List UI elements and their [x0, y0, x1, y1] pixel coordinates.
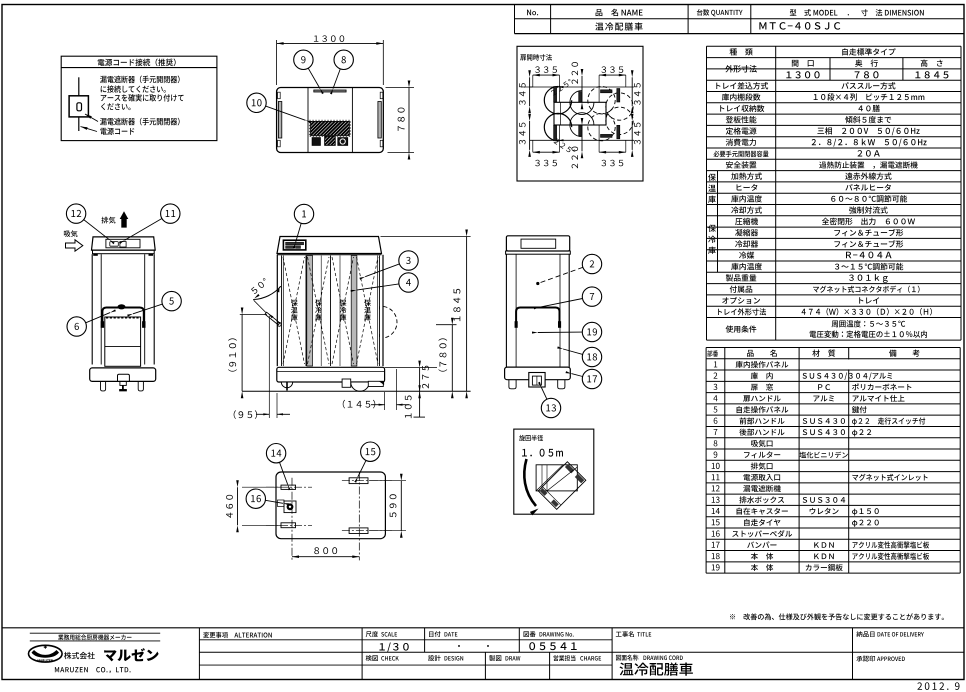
center lines — [266, 486, 312, 488]
top cap front — [277, 237, 382, 254]
corner latch marks — [278, 92, 281, 99]
balloon 15 — [354, 442, 380, 483]
bottom view of cart — [226, 472, 406, 560]
inner cart — [105, 317, 141, 366]
construction lines — [530, 86, 634, 88]
door swing arcs top-right (dashed) — [588, 87, 615, 114]
cart body sides — [276, 255, 278, 366]
dims 345 right — [631, 77, 633, 106]
balloon 2 — [536, 254, 602, 285]
dim 275 — [385, 367, 437, 369]
control panel — [283, 240, 305, 250]
compressor parts — [312, 138, 320, 146]
balloon 7 — [534, 287, 602, 310]
casters side — [509, 380, 516, 389]
balloon 13 — [538, 382, 561, 418]
parts list table — [706, 348, 960, 574]
top cap side — [506, 236, 569, 251]
diagonals — [536, 465, 563, 491]
rear view of cart — [90, 237, 156, 391]
balloon 5 — [127, 291, 181, 316]
door swing arcs bottom-right (dashed) — [588, 113, 615, 140]
top cap — [92, 237, 156, 250]
dim 1300 — [276, 40, 278, 85]
date stamp — [917, 682, 948, 690]
plan view of cart — [277, 35, 414, 159]
casters — [101, 381, 106, 391]
dims 335 top — [533, 74, 560, 76]
balloon 4 — [351, 273, 419, 292]
turning radius diagram box — [514, 429, 594, 515]
open door at 50 deg — [250, 278, 281, 327]
dim (95) — [268, 316, 270, 418]
leader arrow to cord — [81, 127, 98, 132]
header table (No./NAME/QUANTITY/MODEL) — [515, 5, 965, 34]
dims 345 left — [521, 86, 533, 88]
balloon 6 — [67, 309, 116, 336]
leader arrow to breaker — [85, 114, 98, 122]
disclaimer note — [730, 613, 944, 620]
balloon 8 — [330, 50, 353, 94]
dims 335 bottom — [533, 151, 560, 153]
caster positions — [281, 485, 296, 489]
drain box — [529, 373, 545, 388]
base — [90, 368, 156, 382]
balloon 17 — [566, 369, 602, 388]
front casters and drive wheel — [281, 382, 292, 388]
turning arc arrow — [524, 459, 536, 506]
right door handle bar — [378, 102, 381, 139]
cart body plan rect — [554, 102, 606, 125]
front view of cart — [277, 237, 397, 392]
side handle hidden arc — [384, 306, 397, 338]
ground line — [242, 390, 471, 392]
rear handle side — [516, 308, 559, 328]
base front — [277, 367, 385, 382]
drain box bottom — [284, 501, 296, 513]
dim 1845 — [381, 236, 471, 238]
door swing dashed lines — [283, 257, 305, 364]
power cord connection note box — [61, 56, 217, 140]
cart straight position — [536, 465, 577, 491]
balloon 12 — [66, 204, 114, 244]
doors — [281, 256, 283, 367]
breaker symbol — [78, 77, 80, 96]
balloon 1 — [293, 204, 314, 248]
base side — [505, 367, 571, 380]
frame posts — [91, 254, 93, 364]
left door handle bar — [278, 102, 281, 139]
feet under cap — [94, 254, 98, 256]
dim 590 — [400, 481, 402, 531]
dim 800 — [292, 556, 359, 558]
balloon 19 — [532, 322, 602, 341]
exhaust arrow — [101, 211, 128, 227]
angle 225 deg labels — [550, 79, 572, 96]
door swing arcs top-left — [544, 87, 571, 114]
balloon 11 — [119, 204, 180, 244]
top vent slit — [314, 90, 346, 92]
dim (145) — [384, 392, 386, 410]
dim 105 — [419, 391, 421, 417]
maruzen company logo block — [29, 633, 161, 673]
specification table — [707, 46, 962, 340]
door open dimension diagram box — [517, 46, 643, 181]
cart rotated position — [538, 462, 586, 510]
balloon 10 — [247, 93, 311, 123]
dim (780) right — [436, 324, 457, 326]
side view of cart — [505, 236, 571, 389]
side body — [505, 254, 507, 367]
dims 220 — [581, 76, 583, 102]
inner cart handle — [102, 308, 143, 327]
intake arrow — [64, 230, 83, 251]
dim (910) — [240, 314, 267, 316]
title block — [2, 628, 964, 680]
balloon 3 — [359, 251, 418, 280]
balloon 18 — [557, 346, 602, 366]
dim 780 — [386, 87, 415, 89]
door swing arcs bottom-left — [544, 113, 571, 140]
door labels — [291, 300, 298, 306]
balloon 9 — [294, 50, 324, 94]
balloon 14 — [266, 444, 290, 491]
balloon 16 — [246, 489, 289, 508]
dim 460 — [242, 486, 281, 488]
